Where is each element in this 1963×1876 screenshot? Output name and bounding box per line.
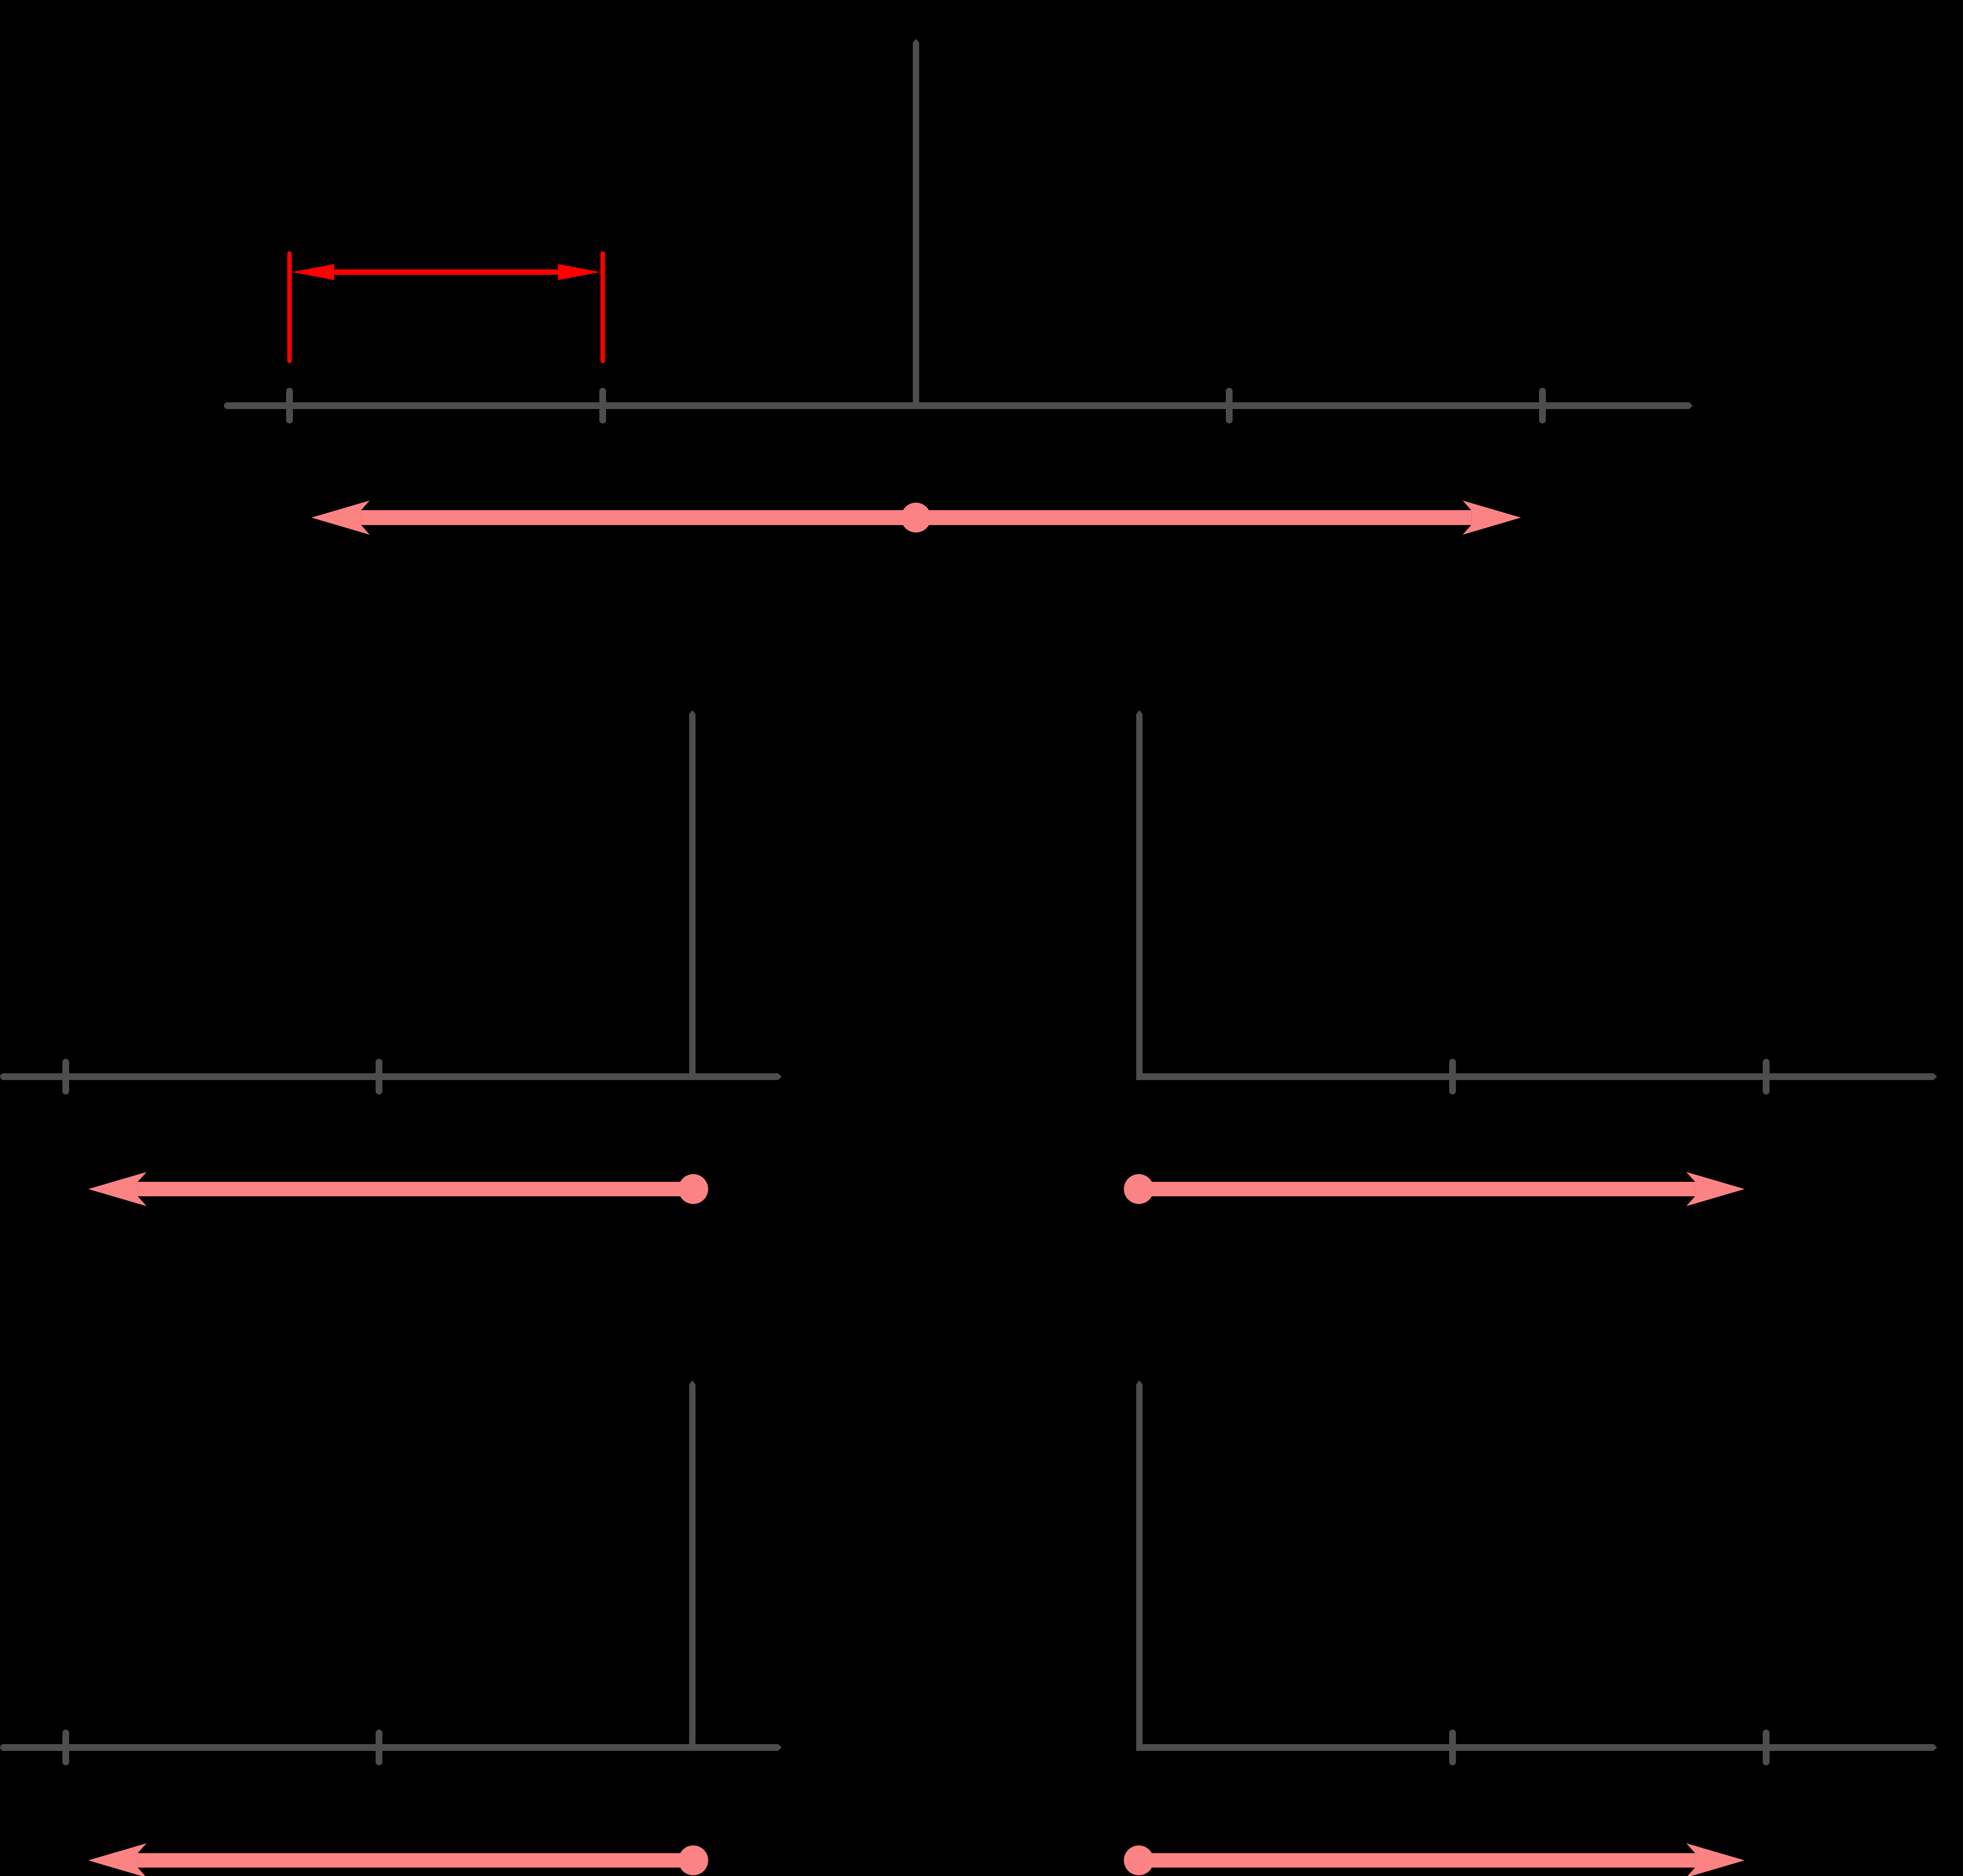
pink closed dot NL3 xyxy=(1124,1174,1154,1204)
center vertical line NL1-v xyxy=(913,39,919,406)
pink right ray NL5 xyxy=(1139,1843,1745,1876)
pink double-headed arrow (all reals) xyxy=(311,501,1521,535)
tick NL1-t5 xyxy=(1539,391,1546,420)
tick NL1-t4 xyxy=(1226,391,1233,420)
tick NL1-t2 xyxy=(599,391,606,420)
tick NL5-t1 xyxy=(1449,1733,1456,1762)
tick NL4-t2 xyxy=(376,1733,382,1762)
tick NL3-t2 xyxy=(1763,1062,1770,1091)
tick NL5-t2 xyxy=(1763,1733,1770,1762)
pink left ray NL4 xyxy=(88,1843,693,1876)
red double-headed distance arrow xyxy=(292,264,600,280)
pink right ray NL3 xyxy=(1139,1172,1745,1206)
pink closed dot NL4 xyxy=(678,1845,708,1875)
red interval bar right xyxy=(601,254,605,361)
axis NL4 (bottom-left) xyxy=(0,1744,782,1751)
vertical line NL5-v xyxy=(1136,1381,1143,1751)
pink closed dot NL5 xyxy=(1124,1845,1154,1875)
axis NL1 xyxy=(224,402,1693,409)
vertical line NL3-v xyxy=(1136,710,1143,1080)
vertical line NL4-v xyxy=(689,1381,696,1748)
pink closed dot NL2 xyxy=(678,1174,708,1204)
axis NL3 (middle-right) xyxy=(1136,1073,1937,1080)
pink center dot on double arrow xyxy=(901,503,931,532)
tick NL2-t2 xyxy=(376,1062,382,1091)
tick NL2-t1 xyxy=(62,1062,69,1091)
tick NL1-t1 xyxy=(286,391,293,420)
pink left ray NL2 xyxy=(88,1172,693,1206)
vertical line NL2-v xyxy=(689,710,696,1077)
axis NL5 (bottom-right) xyxy=(1136,1744,1937,1751)
red interval bar left xyxy=(287,254,292,361)
tick NL4-t1 xyxy=(62,1733,69,1762)
tick NL3-t1 xyxy=(1449,1062,1456,1091)
axis NL2 (middle-left) xyxy=(0,1073,782,1080)
